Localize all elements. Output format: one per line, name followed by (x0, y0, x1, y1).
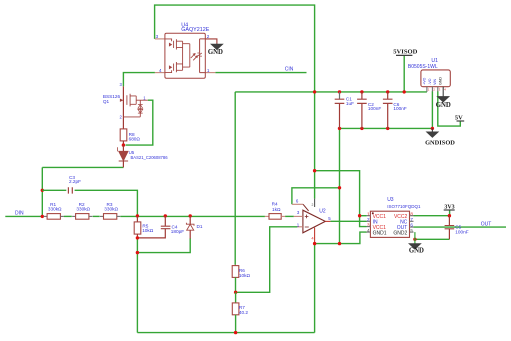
wire D1 bottom return to R5 node (137, 238, 190, 252)
wire R4 to U2 pin3 segment (285, 215, 294, 217)
U4 internal source bracket (183, 41, 190, 70)
wire GNDISOD column x=339.5 (339, 128, 341, 243)
pin stub U4 pin4 (155, 72, 165, 74)
capacitor C4 180pF (164, 216, 166, 226)
svg-text:+VO: +VO (422, 77, 426, 84)
capacitor C2 100nF (361, 92, 363, 99)
pin stub U1 pin2 (431, 87, 433, 92)
junction C1 bottom (338, 127, 341, 130)
resistor R3 330k (100, 215, 104, 217)
resistor R7 40.2 (235, 292, 237, 303)
wire CIN net from U4 pin1 (215, 72, 306, 74)
Q1 gate-source zener (123, 100, 140, 117)
svg-text:OUT: OUT (481, 222, 492, 228)
U3 GND2 drop and ground GND (409, 232, 424, 254)
U3 pin1 indicator dot (372, 212, 374, 214)
wire VCC1 feed from main vertical (315, 171, 367, 227)
pin stub U4 pin3 (155, 38, 165, 40)
capacitor C6 100nF (387, 92, 389, 99)
svg-text:4: 4 (159, 68, 162, 73)
svg-text:3: 3 (156, 34, 159, 39)
wire 3V3 to U3 VCC2 and C5 (414, 215, 450, 217)
svg-text:BAS21_C20608786: BAS21_C20608786 (131, 155, 169, 160)
wire Q1 source return to R8 bottom node (126, 100, 153, 145)
svg-text:100nF: 100nF (368, 106, 381, 111)
junction GNDISOD (431, 127, 434, 130)
junction GND2 C5 bottom (413, 238, 416, 241)
svg-text:2.2pF: 2.2pF (69, 179, 81, 184)
svg-text:10kΩ: 10kΩ (142, 228, 154, 233)
wire 3V3 power stem (449, 210, 451, 216)
svg-text:D1: D1 (197, 224, 203, 229)
wire bottom ground rail (137, 332, 314, 334)
wire C5 bottom to GND2 (415, 238, 450, 240)
svg-text:5: 5 (328, 216, 331, 221)
svg-text:2: 2 (207, 34, 210, 39)
U2 minus mark (305, 226, 309, 228)
svg-text:330kΩ: 330kΩ (76, 206, 90, 211)
svg-text:1: 1 (428, 88, 430, 92)
junction R7 bottom rail (234, 331, 237, 334)
junction C2 bottom (360, 127, 363, 130)
junction C2 top (360, 90, 363, 93)
wire R2-R3 segment (93, 215, 100, 217)
wire OUT net (414, 226, 507, 228)
wire 5VISOD top rail y=92 (235, 91, 427, 93)
svg-text:40.2: 40.2 (239, 310, 249, 315)
svg-text:CIN: CIN (285, 67, 294, 73)
junction R5 D1 join (136, 251, 139, 254)
wire DIN input segment (5, 215, 43, 217)
ground GNDISOD (425, 128, 455, 146)
svg-text:2: 2 (312, 203, 314, 207)
wire R5 bottom column down to bottom rail (136, 238, 138, 333)
wire isolated ground rail y=128.4 (340, 127, 433, 129)
junction U2 pin6 tap (338, 186, 341, 189)
svg-text:10kΩ: 10kΩ (239, 273, 251, 278)
U2 plus mark (305, 215, 309, 219)
wire U5 anode to node A column (42, 166, 123, 168)
svg-text:3: 3 (120, 82, 123, 87)
svg-text:ISO7710FQDQ1: ISO7710FQDQ1 (387, 204, 421, 209)
wire node A vertical x=42 (41, 167, 43, 216)
wire R1-R2 segment (64, 215, 72, 217)
junction R8 bottom node (122, 143, 125, 146)
junction R6 R7 feedback node (234, 291, 237, 294)
wire top loop (5VISOD to U4 pin3 and main vertical) (155, 5, 315, 199)
svg-text:U3: U3 (387, 197, 394, 203)
svg-text:180pF: 180pF (171, 229, 184, 234)
svg-text:2: 2 (120, 114, 123, 119)
svg-text:3: 3 (439, 88, 441, 92)
junction main vertical VCC1 tap (313, 169, 316, 172)
capacitor C5 100nF (448, 216, 450, 226)
junction ground x339 bottom (338, 242, 341, 245)
U4 internal photodiode bar (200, 39, 206, 73)
svg-text:1kΩ: 1kΩ (272, 207, 281, 212)
svg-text:GAQY212E: GAQY212E (181, 27, 210, 33)
svg-text:4: 4 (311, 236, 314, 241)
U2 pin1 stub (297, 226, 303, 228)
resistor R8 680 (120, 129, 127, 141)
svg-text:GND: GND (208, 49, 223, 56)
diode U5 BAS21 (122, 145, 124, 151)
wire 5VISOD power stem (403, 56, 405, 92)
U2 pin3 stub (294, 215, 303, 217)
op-amp U2 comparator triangle (303, 210, 325, 233)
svg-text:GND2: GND2 (393, 231, 407, 237)
svg-text:6: 6 (296, 199, 299, 204)
junction U2 pin4 ground (313, 242, 316, 245)
wire U3 pin1 stub link (360, 215, 367, 217)
junction D1 top (189, 214, 192, 217)
capacitor C1 1uF (339, 92, 341, 99)
U4 internal mosfet 2 (165, 70, 172, 72)
junction C6 bottom (386, 127, 389, 130)
svg-text:-VO: -VO (428, 78, 432, 85)
relay U4 body GAQY212E (165, 33, 205, 78)
junction R5 bottom C4 join (136, 236, 139, 239)
pin stub U1 pin1 (426, 87, 428, 92)
capacitor C3 2.2pF (42, 189, 66, 191)
resistor R2 330k (72, 215, 76, 217)
svg-text:GND: GND (409, 248, 424, 255)
junction C1 top (338, 90, 341, 93)
svg-text:R4: R4 (272, 201, 278, 206)
wire U1 pin2 to isolated ground rail (431, 91, 433, 128)
wire U1 pin3 to 5V port (438, 91, 461, 126)
svg-text:GND1: GND1 (373, 231, 387, 237)
transistor Q1 BSS126 depletion mosfet (122, 86, 124, 129)
svg-text:GND: GND (439, 77, 443, 85)
wire U2 pin4 column to bottom rail (314, 244, 316, 333)
U2 pin6 stub (292, 203, 303, 205)
ground GND at U4 pin2 (208, 44, 223, 57)
U2 output pin5 (325, 220, 330, 222)
pin stubs U3 left (367, 215, 371, 217)
wire R3 to R4 long segment (120, 215, 265, 217)
svg-text:5VISOD: 5VISOD (393, 48, 417, 55)
wire U4 pin4 to Q1 drain (123, 73, 154, 87)
junction U3 VCC1 pin1 (358, 214, 361, 217)
junction R5 top (136, 214, 139, 217)
pin stub U1 pin3 (437, 87, 439, 92)
junction C4 top (164, 214, 167, 217)
resistor R4 1k (265, 215, 269, 217)
junction C6 top (386, 90, 389, 93)
wire U2 pin6 drop (292, 188, 340, 205)
svg-text:VIN: VIN (433, 78, 437, 84)
U2 pin4 supply pin (314, 228, 316, 244)
svg-text:Q1: Q1 (103, 99, 110, 104)
svg-text:DIN: DIN (15, 210, 24, 216)
svg-text:B0505S-1WL: B0505S-1WL (408, 64, 438, 70)
U4 internal led arrows (191, 53, 198, 60)
junction node A at DIN row (41, 215, 44, 218)
svg-text:330kΩ: 330kΩ (104, 206, 118, 211)
U4 internal mosfet 1 (165, 39, 172, 41)
svg-text:100nF: 100nF (393, 106, 406, 111)
svg-text:330kΩ: 330kΩ (48, 206, 62, 211)
wire U2 output to U3 IN (330, 220, 366, 222)
wire U3 GND1 to comparator ground (315, 232, 367, 244)
svg-text:2: 2 (433, 88, 435, 92)
svg-text:1: 1 (207, 68, 210, 73)
svg-text:U2: U2 (319, 208, 326, 214)
junction 5VISOD stem (403, 90, 406, 93)
svg-text:100nF: 100nF (455, 229, 468, 234)
wire feedback R6/R7 node to U2 pin1 (236, 227, 298, 292)
resistor R6 10k (234, 264, 236, 267)
digital isolator U3 ISO7710FQDQ1 (370, 211, 409, 237)
junction C5 top (448, 214, 451, 217)
svg-text:1uF: 1uF (346, 101, 354, 106)
junction node A at C3 tap (41, 189, 44, 192)
pin stub U1 pin4 and ground GND (436, 87, 451, 109)
pin stub U4 pin1 (205, 72, 215, 74)
resistor R1 330k (44, 215, 48, 217)
pin stub U4 pin2 to GND (205, 39, 217, 44)
wire R6 pullup column x=235 (234, 92, 236, 265)
svg-text:4: 4 (444, 88, 446, 92)
wire C3 right lead over to R3/R5 node (75, 190, 138, 214)
pin stubs U3 right (410, 215, 414, 217)
resistor R5 10k (136, 216, 138, 222)
svg-text:GND: GND (436, 102, 451, 109)
svg-text:GNDISOD: GNDISOD (425, 139, 455, 146)
U2 pin2 supply pin (314, 199, 316, 207)
dc-dc converter U1 B0505S-1WL (421, 70, 450, 87)
svg-text:680Ω: 680Ω (129, 136, 141, 141)
svg-text:5V: 5V (455, 114, 463, 121)
junction top rail at main vertical (313, 90, 316, 93)
diode D1 zener (189, 216, 191, 224)
svg-text:3: 3 (297, 210, 300, 215)
